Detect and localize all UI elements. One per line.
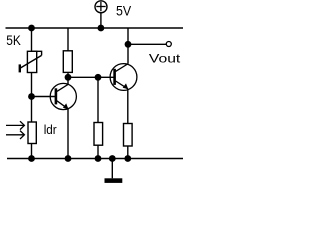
preset resistor 5K body [27,51,36,72]
resistor R3 body [124,124,133,147]
resistor R2 body [94,123,103,146]
wire R1 to node [67,72,69,77]
node Vout tap [125,41,132,48]
node supply-rail junction [98,25,105,32]
ground [105,178,123,183]
wire ldr to rail [31,144,33,159]
label Vout [149,52,181,66]
wire base node to R2 [97,77,99,122]
wire R3 to rail [127,146,129,159]
wire top 5V rail [6,27,184,29]
wire Vout [128,43,166,45]
resistor LDR body [28,122,36,144]
svg-text:5K: 5K [6,33,21,48]
terminal Vout [166,42,171,47]
svg-text:Vout: Vout [149,52,181,66]
transistor Q2 [110,64,137,91]
preset wiper arm [20,55,41,68]
node R2-rail [95,155,102,162]
resistor R1 body [63,51,72,73]
node ldr-rail [28,155,35,162]
wire bottom 0V rail [7,158,183,160]
label 5K [6,33,21,48]
wire supply stub [100,13,102,29]
wire R2 to rail [97,145,99,158]
wire Q2 base [98,76,114,78]
wire ground stub [111,159,113,179]
node divider tap [28,93,35,100]
wire preset to ldr [31,73,33,123]
node R3-rail [124,155,131,162]
wire Q1 collector up [67,77,69,84]
preset wiper hook [32,51,42,55]
node Q1 emitter-rail [65,155,72,162]
label 5V [116,3,131,18]
wire rail to collector resistor [67,28,69,51]
node ground tap [109,155,116,162]
label ldr [44,122,57,137]
preset wiper T-bar [19,64,21,72]
wire rail to preset [31,28,33,51]
wire Q2 collector to rail [127,28,129,64]
node rail-preset junction [28,25,35,32]
light arrow 1 [6,121,24,129]
node Q2 base [95,74,102,81]
transistor Q1 [50,83,76,109]
wire collector node to base node [68,76,98,78]
node Q1 collector [65,74,72,81]
wire Q1 emitter down [67,109,69,159]
light arrow 2 [6,131,24,139]
power supply terminal +5V [95,1,107,13]
wire Q1 base [32,96,56,98]
wire Q2 emitter down [127,89,129,124]
svg-text:ldr: ldr [44,122,57,137]
svg-text:5V: 5V [116,3,131,18]
